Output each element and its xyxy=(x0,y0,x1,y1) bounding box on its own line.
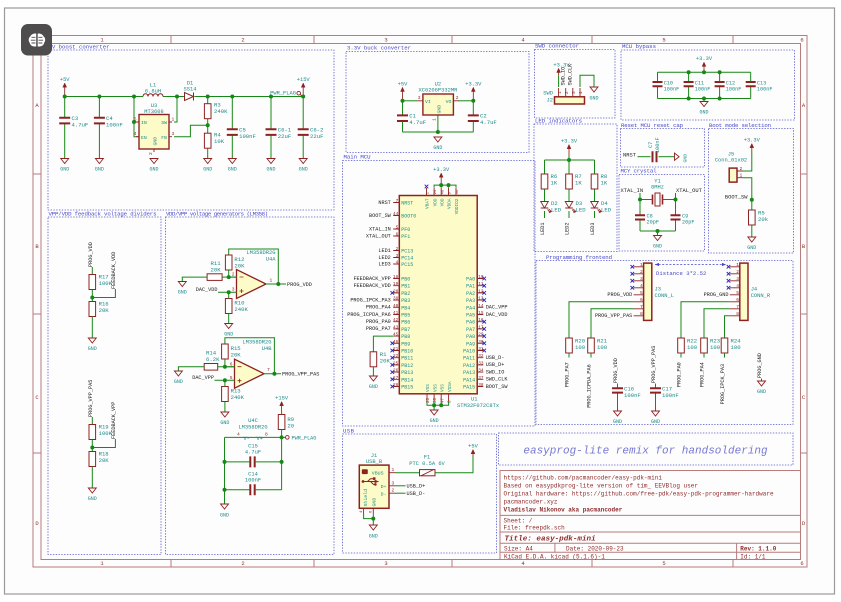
svg-text:BOOT_SW: BOOT_SW xyxy=(725,195,748,201)
wire mcu vss rail xyxy=(427,401,449,405)
op-amp U4A xyxy=(237,270,267,299)
svg-text:PROG_PA0: PROG_PA0 xyxy=(677,362,683,387)
svg-text:2: 2 xyxy=(392,488,395,494)
wire VBUS to F1 xyxy=(396,472,420,474)
svg-text:19: 19 xyxy=(393,282,399,287)
svg-text:100: 100 xyxy=(687,344,698,351)
ground C5 xyxy=(228,159,236,164)
svg-text:4: 4 xyxy=(134,131,137,137)
svg-text:6.2K: 6.2K xyxy=(206,356,220,363)
svg-text:BOOT_SW: BOOT_SW xyxy=(369,213,392,219)
svg-text:GND: GND xyxy=(149,167,158,173)
wire buck vo xyxy=(458,100,473,102)
svg-text:3: 3 xyxy=(384,560,387,567)
svg-text:3: 3 xyxy=(736,276,739,282)
resistor R10 xyxy=(225,299,232,314)
svg-text:GND: GND xyxy=(88,346,97,352)
section box Boot mode selection xyxy=(709,129,794,254)
capacitor C9 xyxy=(671,215,681,219)
ground R11 xyxy=(178,282,186,287)
svg-text:PC14: PC14 xyxy=(401,256,413,262)
svg-text:7: 7 xyxy=(640,304,643,310)
wire R3 xyxy=(207,97,209,104)
svg-text:PROG_VPP_PAS: PROG_VPP_PAS xyxy=(282,372,319,378)
svg-text:PA8: PA8 xyxy=(466,334,475,340)
svg-text:USB_D-: USB_D- xyxy=(486,355,505,361)
wire R17 junction xyxy=(91,290,93,302)
svg-text:+5V: +5V xyxy=(468,444,478,450)
wire bypass top rail xyxy=(658,71,751,73)
svg-text:GND: GND xyxy=(369,534,378,540)
wire C4 xyxy=(98,97,100,118)
svg-text:VBAT: VBAT xyxy=(426,198,431,209)
svg-text:VSS: VSS xyxy=(433,384,438,392)
wire R8 branch xyxy=(594,160,596,174)
svg-text:PB1: PB1 xyxy=(401,284,410,290)
svg-text:PF1: PF1 xyxy=(401,234,410,240)
wire crystal gnd rail xyxy=(640,230,676,232)
wire u4c right rail xyxy=(281,437,283,489)
svg-text:GND: GND xyxy=(430,418,439,424)
mcu top pin stubs xyxy=(427,188,457,196)
svg-text:10K: 10K xyxy=(214,138,225,145)
svg-text:PROG_VDD: PROG_VDD xyxy=(287,282,312,288)
power +5V usb xyxy=(472,454,474,457)
svg-text:PROG_ICPDA_PA6: PROG_ICPDA_PA6 xyxy=(587,364,593,408)
svg-text:8: 8 xyxy=(736,311,739,317)
wire R23 label xyxy=(703,353,705,358)
svg-text:Boot mode selection: Boot mode selection xyxy=(709,122,771,129)
svg-text:3: 3 xyxy=(392,480,395,486)
ground mcu xyxy=(430,410,438,415)
svg-text:37: 37 xyxy=(478,376,484,381)
svg-text:GND: GND xyxy=(436,105,442,114)
svg-text:18: 18 xyxy=(393,275,399,280)
junctions buck xyxy=(401,99,405,103)
power +5V buck xyxy=(402,91,404,101)
junction u4c xyxy=(280,435,284,439)
svg-text:20K: 20K xyxy=(380,358,391,365)
connector J5 Conn_01x02 xyxy=(729,168,737,182)
junctions boost xyxy=(63,95,306,128)
svg-text:CONN_R: CONN_R xyxy=(751,293,771,299)
wire C16 xyxy=(617,384,619,389)
ground crystal xyxy=(654,236,662,241)
svg-text:20K: 20K xyxy=(234,263,245,270)
junction U4A in+ xyxy=(227,290,231,294)
svg-text:4: 4 xyxy=(640,283,643,289)
svg-text:PB15: PB15 xyxy=(401,385,413,391)
svg-text:35: 35 xyxy=(434,397,438,403)
op-amp U4B xyxy=(235,359,265,388)
title block frame xyxy=(500,471,801,560)
svg-text:J3: J3 xyxy=(655,287,661,293)
svg-text:PB0: PB0 xyxy=(401,277,410,283)
svg-text:100nF: 100nF xyxy=(239,133,256,140)
resistor R6 xyxy=(541,174,548,189)
wire crystal xyxy=(640,193,653,200)
svg-text:22uF: 22uF xyxy=(310,133,323,140)
svg-text:1K: 1K xyxy=(575,180,582,187)
wire U3 IN/EN xyxy=(134,97,139,123)
svg-text:20: 20 xyxy=(287,423,294,430)
ground divider R16 xyxy=(88,338,96,343)
svg-text:GND: GND xyxy=(683,154,689,163)
svg-text:6: 6 xyxy=(640,297,643,303)
svg-text:U4A: U4A xyxy=(266,257,276,263)
ground C6-1 xyxy=(267,159,275,164)
ground R4 xyxy=(204,159,212,164)
svg-text:Shield: Shield xyxy=(363,489,369,507)
svg-text:DAC_VPP: DAC_VPP xyxy=(486,305,508,311)
wire J3 pin6 xyxy=(569,302,634,338)
power +15V xyxy=(302,87,304,97)
svg-text:GND: GND xyxy=(747,245,756,251)
svg-text:100nF: 100nF xyxy=(106,122,123,129)
resistor R15 xyxy=(222,344,229,359)
ground U3 xyxy=(150,159,158,164)
no-connects J3 xyxy=(631,265,635,290)
svg-text:100nF: 100nF xyxy=(726,86,742,92)
wire mcu vdd rail xyxy=(434,185,456,188)
junctions mcu vss xyxy=(432,403,436,407)
svg-text:PROG_PA7: PROG_PA7 xyxy=(366,326,391,332)
svg-text:PROG_PA4: PROG_PA4 xyxy=(366,305,391,311)
wire R19 junction xyxy=(91,440,93,452)
wire nrst cap xyxy=(638,156,651,158)
svg-text:GND: GND xyxy=(589,96,598,102)
svg-text:Reset MCU reset cap: Reset MCU reset cap xyxy=(621,122,684,129)
svg-text:PROG_VDD: PROG_VDD xyxy=(88,242,94,267)
wire PROG_VDD to R17 xyxy=(91,267,93,275)
svg-text:C7: C7 xyxy=(648,142,654,148)
mcu right pin stubs xyxy=(477,279,483,387)
svg-text:9: 9 xyxy=(449,192,453,194)
svg-text:100: 100 xyxy=(597,344,608,351)
ic U3 MT3608 xyxy=(139,115,169,150)
ground R10 xyxy=(225,324,233,329)
svg-text:8: 8 xyxy=(640,311,643,317)
ground C17 xyxy=(652,411,660,416)
svg-text:PA3: PA3 xyxy=(466,298,475,304)
svg-text:VDD: VDD xyxy=(440,198,445,206)
wire USB_D+ xyxy=(396,485,406,487)
svg-text:4.7uF: 4.7uF xyxy=(480,119,497,126)
wire R16 gnd xyxy=(91,317,93,339)
wire mcu gnd xyxy=(433,405,435,410)
ground R5 xyxy=(748,237,756,242)
mcu right pin numbers xyxy=(478,275,484,388)
section box VDD/VPP voltage generators (LM358) xyxy=(166,217,335,555)
wire U3 FB xyxy=(174,125,208,137)
wire C11 xyxy=(688,72,690,82)
svg-text:41: 41 xyxy=(393,311,399,316)
power +15V u4c xyxy=(281,406,283,412)
svg-text:Distance 3*2.52: Distance 3*2.52 xyxy=(656,270,706,277)
wire L1 to D1 xyxy=(163,96,185,98)
connector J2 SWD xyxy=(555,97,585,104)
svg-text:VDD: VDD xyxy=(433,198,438,206)
mcu left pin names xyxy=(401,201,416,391)
wire u4c top rail xyxy=(225,436,282,438)
svg-text:GND: GND xyxy=(651,419,660,425)
wire C3 xyxy=(64,97,66,118)
svg-text:20K: 20K xyxy=(99,457,110,464)
banner box xyxy=(499,433,794,465)
resistor R20 xyxy=(566,338,573,353)
wire R10 xyxy=(228,292,230,298)
svg-text:3: 3 xyxy=(384,37,387,44)
svg-text:2: 2 xyxy=(640,269,643,275)
junction U4A out xyxy=(276,282,280,286)
svg-text:PROG_VPP_PA5: PROG_VPP_PA5 xyxy=(88,380,94,417)
power +5V xyxy=(64,87,66,97)
wire C6-2 xyxy=(302,97,304,130)
svg-text:SWD_IO: SWD_IO xyxy=(561,67,567,86)
svg-text:6: 6 xyxy=(736,297,739,303)
wire usb shield gnd xyxy=(364,514,374,519)
svg-text:+3.3V: +3.3V xyxy=(696,56,713,62)
svg-text:PROG_VDD: PROG_VDD xyxy=(613,358,619,383)
ic U1 STM32F072C8Tx xyxy=(399,196,477,394)
wire R15 feedback xyxy=(225,338,275,374)
power +3.3V buck xyxy=(472,91,474,101)
ground bypass xyxy=(700,102,708,107)
ground u4c xyxy=(221,504,229,509)
wire R1 gnd xyxy=(372,367,374,376)
svg-text:20pF: 20pF xyxy=(647,220,659,226)
wire led rail xyxy=(545,159,595,161)
mcu left pin numbers xyxy=(393,199,399,388)
svg-text:6.8uH: 6.8uH xyxy=(145,89,161,95)
mcu right no-connects xyxy=(482,277,486,353)
svg-text:1: 1 xyxy=(640,262,643,268)
wire F1 to +5V xyxy=(435,457,473,473)
svg-text:LED: LED xyxy=(576,207,587,214)
svg-text:+3.3V: +3.3V xyxy=(465,81,482,87)
svg-text:+5V: +5V xyxy=(398,81,408,87)
resistor R18 xyxy=(89,452,96,467)
svg-text:PROG_GND: PROG_GND xyxy=(704,292,729,298)
svg-text:PA1: PA1 xyxy=(466,284,475,290)
svg-text:3: 3 xyxy=(172,131,175,137)
svg-text:GND: GND xyxy=(224,332,233,338)
svg-text:PB9: PB9 xyxy=(401,341,410,347)
wire R4 gnd xyxy=(207,148,209,158)
resistor R17 xyxy=(89,275,96,290)
svg-text:3: 3 xyxy=(396,254,399,259)
section box USB xyxy=(343,434,497,553)
ground PROG_GND xyxy=(758,381,766,386)
svg-text:100nF: 100nF xyxy=(664,86,680,92)
svg-text:240K: 240K xyxy=(234,306,248,313)
mcu left pin labels xyxy=(347,200,391,332)
wire J4 pin8 xyxy=(725,316,730,338)
wire J4 pin7 xyxy=(704,309,730,338)
power +3.3V boot xyxy=(751,148,753,152)
ground swd xyxy=(590,87,598,92)
svg-text:LM358DR2G: LM358DR2G xyxy=(246,250,275,256)
svg-text:PWR_FLAG: PWR_FLAG xyxy=(270,91,296,97)
svg-text:LED2: LED2 xyxy=(378,255,390,261)
svg-text:LED3: LED3 xyxy=(378,261,390,267)
wire D1 to +15V xyxy=(195,96,304,98)
svg-text:MT3608: MT3608 xyxy=(144,109,163,115)
svg-text:SWD_IO: SWD_IO xyxy=(486,369,505,375)
svg-text:FEEDBACK_VDD: FEEDBACK_VDD xyxy=(353,283,390,289)
svg-text:PROG_IPCK_PA3: PROG_IPCK_PA3 xyxy=(720,364,726,404)
section box VPP/VDD feedback voltage dividers xyxy=(48,217,161,555)
mcu bottom pin stubs xyxy=(427,394,449,401)
svg-text:J1: J1 xyxy=(371,453,377,459)
svg-text:5: 5 xyxy=(230,375,233,381)
junction U4A in- xyxy=(227,275,231,279)
svg-text:20K: 20K xyxy=(211,267,222,274)
svg-text:VBUS: VBUS xyxy=(372,471,384,477)
led D4 xyxy=(591,202,599,209)
svg-text:8MHz: 8MHz xyxy=(651,185,664,191)
svg-text:PA10: PA10 xyxy=(463,349,475,355)
junction divider R19 xyxy=(90,446,94,450)
wire R11 left gnd xyxy=(182,277,207,281)
svg-text:GND: GND xyxy=(299,167,308,173)
svg-text:44: 44 xyxy=(393,212,399,217)
svg-text:U4B: U4B xyxy=(262,346,272,352)
svg-text:PA12: PA12 xyxy=(463,363,475,369)
junction boot xyxy=(750,198,754,202)
svg-text:PTC 0.5A 6V: PTC 0.5A 6V xyxy=(409,461,445,467)
svg-text:3: 3 xyxy=(572,91,577,94)
svg-text:GND: GND xyxy=(88,496,97,502)
wire U4B out xyxy=(264,373,281,375)
wire R7 branch xyxy=(568,160,570,174)
capacitor C7 xyxy=(653,151,657,162)
power flag u4c xyxy=(286,436,290,440)
svg-text:PROG_PA7: PROG_PA7 xyxy=(565,362,571,387)
junctions bypass xyxy=(687,70,722,100)
svg-text:1K: 1K xyxy=(551,180,558,187)
svg-text:GND: GND xyxy=(369,384,378,390)
capacitor C13 xyxy=(746,82,756,86)
wire R14 left gnd xyxy=(178,367,204,371)
svg-text:BOOT0: BOOT0 xyxy=(401,214,416,220)
svg-text:4.7uF: 4.7uF xyxy=(409,119,426,126)
svg-text:2: 2 xyxy=(456,95,459,101)
svg-text:VI: VI xyxy=(425,99,431,105)
wire R9 down xyxy=(281,412,283,415)
junction usb gnd xyxy=(371,517,375,521)
svg-text:LED indicators: LED indicators xyxy=(535,118,582,125)
svg-text:100nF: 100nF xyxy=(757,86,773,92)
svg-text:PA2: PA2 xyxy=(466,291,475,297)
svg-text:USB: USB xyxy=(343,428,355,435)
wire buck C1 xyxy=(402,101,404,116)
svg-text:2: 2 xyxy=(736,269,739,275)
wire USB_D- xyxy=(396,492,406,494)
svg-text:VSSA: VSSA xyxy=(448,381,453,392)
svg-text:100: 100 xyxy=(731,344,742,351)
power +3.3V mcu xyxy=(440,177,442,183)
svg-text:easyprog-lite remix for handso: easyprog-lite remix for handsoldering xyxy=(523,446,768,458)
svg-text:7: 7 xyxy=(396,199,399,204)
wire buck C2 xyxy=(472,101,474,116)
wire crystal caps xyxy=(639,200,641,216)
svg-text:34: 34 xyxy=(478,369,484,374)
mcu right pin labels xyxy=(486,305,509,390)
junctions mcu vdd xyxy=(439,183,443,187)
ground R14 xyxy=(174,371,182,376)
svg-text:20K: 20K xyxy=(231,352,242,359)
svg-text:45: 45 xyxy=(393,333,399,338)
svg-text:22uF: 22uF xyxy=(278,133,291,140)
svg-text:100nF: 100nF xyxy=(245,478,261,484)
svg-text:4: 4 xyxy=(579,91,584,94)
svg-text:PB10: PB10 xyxy=(401,349,413,355)
svg-text:PB14: PB14 xyxy=(401,377,413,383)
svg-text:1: 1 xyxy=(392,467,395,473)
svg-text:Conn_01x02: Conn_01x02 xyxy=(715,158,747,164)
section box LED indicators xyxy=(534,124,617,252)
resistor R11 xyxy=(207,274,222,281)
resistor R23 xyxy=(701,338,708,353)
svg-text:Sheet: /: Sheet: / xyxy=(504,518,533,525)
svg-text:5: 5 xyxy=(640,290,643,296)
svg-text:GND: GND xyxy=(266,167,275,173)
svg-text:GND: GND xyxy=(433,145,442,151)
led D2 xyxy=(541,202,549,209)
capacitor C17 xyxy=(650,388,661,392)
svg-text:240K: 240K xyxy=(231,394,245,401)
junction U4B in+ xyxy=(223,378,227,382)
svg-text:1: 1 xyxy=(558,91,563,94)
svg-text:MCU bypass: MCU bypass xyxy=(622,43,656,50)
svg-text:F1: F1 xyxy=(424,455,430,461)
wire U4A in- xyxy=(229,270,237,277)
svg-text:GND: GND xyxy=(220,420,229,426)
svg-text:Rev: 1.1.0: Rev: 1.1.0 xyxy=(740,545,776,552)
svg-text:SW: SW xyxy=(161,120,167,126)
wire u4c left rail xyxy=(224,437,226,504)
svg-text:+3.3V: +3.3V xyxy=(744,138,761,144)
svg-text:LED: LED xyxy=(601,207,612,214)
junction C14 xyxy=(223,488,227,492)
svg-text:Date: 2020-09-23: Date: 2020-09-23 xyxy=(566,545,624,552)
svg-text:VO: VO xyxy=(446,99,452,105)
svg-text:+3.3V: +3.3V xyxy=(561,139,578,145)
power +3.3V led xyxy=(568,149,570,156)
svg-text:DAC_VPP: DAC_VPP xyxy=(192,375,214,381)
section box Reset MCU reset cap xyxy=(621,129,705,168)
connector J3 CONN_L xyxy=(644,263,652,320)
svg-text:PROG_IPCK_PA3: PROG_IPCK_PA3 xyxy=(350,297,390,303)
svg-text:USB_D+: USB_D+ xyxy=(486,362,505,368)
wire PB8 to R1 xyxy=(373,336,393,352)
svg-text:48: 48 xyxy=(441,190,445,194)
svg-text:LED1: LED1 xyxy=(540,223,546,235)
junctions crystal xyxy=(638,198,642,202)
wire U4B in- xyxy=(225,359,235,367)
svg-text:https://github.com/pacmancoder: https://github.com/pacmancoder/easy-pdk-… xyxy=(504,475,663,482)
svg-text:D+: D+ xyxy=(381,484,387,490)
svg-text:3.3V buck converter: 3.3V buck converter xyxy=(347,45,411,52)
svg-text:PA15: PA15 xyxy=(463,385,475,391)
svg-text:V-: V- xyxy=(244,436,250,442)
svg-text:FEEDBACK_VDD: FEEDBACK_VDD xyxy=(111,252,117,289)
resistor R9 xyxy=(278,415,285,430)
svg-text:GND: GND xyxy=(152,137,158,146)
svg-text:SWD: SWD xyxy=(543,91,553,97)
svg-text:7: 7 xyxy=(736,304,739,310)
